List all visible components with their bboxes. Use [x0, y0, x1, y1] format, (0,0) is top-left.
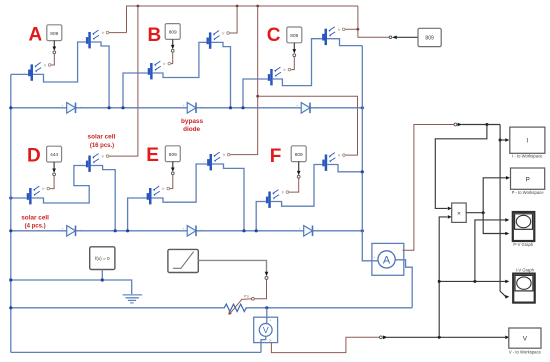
wire: Ir branch to cell F2 — [258, 96, 358, 155]
wire: C2 output to right rail — [327, 39, 362, 46]
svg-text:(4 pcs.): (4 pcs.) — [25, 224, 46, 230]
solar cell B1 — [144, 61, 171, 79]
svg-text:I-V Graph: I-V Graph — [516, 267, 535, 272]
signal arrow constant F to converter — [298, 162, 300, 173]
wire: V signal line with arrowhead — [383, 336, 388, 340]
wire: E1 to E2 series link — [152, 164, 208, 202]
voltmeter VM — [254, 317, 278, 342]
wire: F1 to F2 series link — [271, 165, 323, 207]
wire: E2 output to bus2 — [212, 164, 244, 231]
solar cell F1 — [262, 190, 289, 208]
solar cell F2 — [319, 153, 346, 171]
node: junction bus2 F1 in — [255, 229, 258, 232]
svg-text:P - to Workspace: P - to Workspace — [512, 190, 545, 195]
bypass diode D — [62, 226, 82, 237]
wire: D1 to D2 series link — [32, 166, 90, 204]
svg-text:f(x) = 0: f(x) = 0 — [95, 256, 110, 261]
wire: PS control to variable resistor — [254, 279, 266, 298]
wire: bus1 bypass row top — [11, 107, 363, 109]
wire: Ir lead to cell A1 — [51, 54, 54, 65]
wire: signal line from constant G with arrowhead — [392, 36, 397, 40]
bypass diode F — [299, 226, 319, 237]
wire: bottom return line — [11, 351, 261, 353]
wire: V branch to P-V graph input1 — [475, 220, 506, 282]
wire: P branch to workspace — [483, 178, 506, 213]
svg-text:I - to Workspace: I - to Workspace — [512, 154, 543, 159]
svg-text:V: V — [263, 325, 269, 335]
wire: F2 output to right rail — [327, 165, 362, 172]
product block x — [452, 203, 467, 222]
wire: I signal branch to product — [435, 125, 487, 209]
svg-text:×: × — [457, 210, 461, 217]
solar cell A1 — [24, 63, 51, 81]
to-workspace block I — [510, 127, 545, 153]
node: junction right rail F2 out — [361, 170, 364, 173]
bypass diode E — [182, 226, 202, 237]
node: junction V to IV graph — [438, 280, 441, 283]
signal arrow constant E to converter — [172, 162, 174, 169]
svg-text:+: + — [270, 319, 272, 323]
node: junction left rail load line — [9, 306, 12, 309]
wire: right rail to ammeter — [362, 46, 378, 261]
solar cell D1 — [23, 186, 50, 204]
svg-text:444: 444 — [50, 152, 58, 158]
solar cell D2 — [82, 154, 109, 172]
wire: B2 output to bus1 — [211, 42, 230, 107]
constant F1ir (809) — [291, 146, 306, 162]
wire: Ir branch down to cell E2 — [230, 6, 258, 155]
svg-text:809: 809 — [290, 33, 298, 39]
wire: voltmeter bottom lead to bottom line — [261, 336, 266, 352]
port: PS-S converter circle current — [454, 123, 457, 126]
signal arrow constant C to converter — [293, 43, 295, 51]
wire: A1 to A2 series link — [33, 42, 86, 82]
node: junction bus1 B2 out — [229, 106, 232, 109]
svg-text:diode: diode — [183, 126, 200, 133]
constant A1ir (809) — [47, 25, 62, 41]
solar cell A2 — [82, 30, 109, 48]
svg-text:809: 809 — [295, 152, 303, 158]
port: PS converter circle block F — [297, 175, 300, 178]
constant G (809) top right — [418, 28, 441, 46]
ground (electrical reference) — [123, 295, 143, 303]
solar cell B2 — [203, 31, 230, 49]
wire: P branch to P-V graph input2 — [483, 213, 505, 234]
wire: Ir lead to cell B1 — [171, 52, 173, 64]
svg-text:809: 809 — [169, 30, 177, 36]
wire: F1 input from bus2 — [256, 202, 266, 231]
wire: arrow into I-V graph input2 — [505, 295, 509, 299]
svg-text:solar cell: solar cell — [21, 215, 49, 222]
to-workspace block V — [509, 328, 541, 348]
wire: ammeter output return to load line — [396, 260, 413, 308]
svg-text:P: P — [525, 176, 529, 183]
bypass diode A — [62, 103, 82, 114]
port: variable resistor PS port — [252, 297, 255, 300]
wire: arrow into I workspace — [500, 139, 506, 141]
node: junction I to workspace tap — [499, 139, 502, 142]
ramp block — [168, 249, 198, 272]
wire: D1 input from left rail — [11, 197, 27, 199]
wire: load line left (rail to resistor) — [11, 307, 223, 309]
svg-text:F: F — [270, 146, 282, 167]
constant B1ir (809) — [165, 24, 180, 40]
node: junction bus2 E1 in — [126, 229, 129, 232]
svg-text:V - to Workspace: V - to Workspace — [509, 349, 542, 354]
solar cell C1 — [264, 67, 291, 85]
constant D1ir (444) — [47, 146, 62, 162]
port: PS converter circle at constant G — [389, 36, 392, 39]
wire: left rail — [10, 74, 12, 352]
solar cell E2 — [203, 152, 230, 170]
wire: ammeter PS output — [403, 125, 455, 251]
wire: B1 input from bus1 — [123, 73, 148, 108]
node: junction bus1 right rail — [361, 106, 364, 109]
wire: D2 output to bus2 — [91, 166, 115, 231]
port: PS converter circle block D — [53, 173, 56, 176]
svg-text:C: C — [267, 25, 281, 46]
wire: voltmeter PS output down — [271, 337, 379, 352]
svg-text:809: 809 — [50, 31, 58, 37]
node: junction solver-ground — [101, 278, 104, 281]
svg-text:E: E — [146, 145, 159, 166]
node: junction V to PV graph — [473, 280, 476, 283]
node: junction bus1 left — [9, 106, 12, 109]
node: junction bus1 B1 in — [121, 106, 124, 109]
node: junction P signal — [482, 211, 485, 214]
svg-text:P-V Graph: P-V Graph — [513, 242, 533, 247]
node: junction I signal — [485, 123, 488, 126]
scope P-V Graph — [513, 212, 535, 241]
signal arrow constant D to converter — [53, 162, 55, 170]
variable resistor R (zigzag) — [223, 304, 248, 311]
svg-text:809: 809 — [169, 152, 177, 158]
wire: solver stub to ground line — [101, 270, 103, 281]
wire: Ir lead to cell F1 — [289, 178, 299, 192]
wire: E1 input from bus2 — [128, 198, 147, 231]
node: Ir net junction right — [357, 28, 360, 31]
signal arrow constant B to converter — [172, 39, 174, 46]
solar cell E1 — [143, 186, 170, 204]
variable resistor arrow — [231, 299, 252, 313]
node: junction bus1 A2 out — [108, 106, 111, 109]
svg-text:A: A — [29, 25, 43, 46]
node: junction bus2 E2 out — [242, 229, 245, 232]
wire: ground line — [11, 280, 132, 294]
svg-text:I: I — [526, 138, 528, 145]
svg-text:+: + — [374, 256, 376, 260]
port: PS converter circle block A — [53, 51, 56, 54]
wire: V riser — [439, 217, 447, 337]
solar cell C2 — [318, 27, 345, 45]
constant C1ir (809) — [287, 27, 302, 43]
wire: C1 to C2 series link — [273, 39, 322, 86]
ammeter AM — [372, 243, 404, 275]
node: junction voltmeter tap — [265, 306, 268, 309]
solver configuration f(x)=0 — [90, 247, 115, 270]
node: Ir net junction mid — [256, 95, 259, 98]
svg-text:B: B — [148, 25, 162, 46]
svg-text:solar cell: solar cell — [88, 134, 116, 141]
to-workspace block P — [511, 168, 545, 189]
signal arrow constant A to converter — [53, 41, 55, 48]
wire: product output P — [466, 212, 483, 214]
svg-text:D: D — [27, 146, 41, 167]
wire: B1 to B2 series link — [153, 42, 207, 77]
port: PS-S converter circle voltage — [380, 336, 383, 339]
svg-text:809: 809 — [425, 36, 434, 42]
wire: load line right (resistor to ammeter return) — [248, 307, 413, 309]
wire: I signal vertical to I-V graph — [500, 125, 506, 297]
wire: Ir lead to cell D1 — [50, 176, 54, 189]
svg-text:V: V — [523, 336, 528, 343]
wire: irradiance net top horizontal — [127, 6, 358, 33]
wire: A2 output to bus1 — [91, 42, 109, 108]
port: PS converter circle block C — [293, 54, 296, 57]
wire: Ir net to converter of constant G — [358, 29, 389, 37]
wire: Ir lead to cell E1 — [170, 175, 173, 189]
node: Ir net junction top-3 — [256, 5, 259, 8]
port: PS converter circle at resistor control — [265, 276, 268, 279]
wire: V branch to I-V graph input1 — [439, 280, 505, 282]
wire: Ir lead to cell C1 — [291, 57, 295, 70]
constant E1ir (809) — [165, 146, 180, 162]
wire: C1 input from bus1 — [243, 79, 268, 108]
port: PS converter circle block B — [171, 49, 174, 52]
wire: Ir branch down to cell D2 — [109, 6, 138, 156]
wire: voltmeter top lead — [266, 308, 268, 324]
wire: I signal line with arrowhead — [458, 123, 463, 127]
svg-text:A: A — [383, 255, 391, 267]
wire: A1 input from left rail — [11, 73, 28, 75]
wire: Ir branch down to cell C2 — [345, 6, 358, 29]
node: junction bus2 right rail — [361, 229, 364, 232]
node: Ir net junction top-1 — [137, 5, 140, 8]
wire: Ir branch down to cell B2 — [230, 6, 238, 33]
node: Ir net junction top-2 — [236, 5, 239, 8]
svg-text:(16 pcs.): (16 pcs.) — [90, 143, 114, 149]
node: junction V signal main — [438, 336, 441, 339]
svg-text:bypass: bypass — [181, 118, 203, 125]
node: junction left rail ground line — [9, 278, 12, 281]
node: junction bus1 C1 in — [241, 106, 244, 109]
node: junction left rail D1 — [9, 196, 12, 199]
wire: arrow into V workspace — [505, 336, 509, 340]
node: junction bus2 left — [9, 229, 12, 232]
svg-text:PS: PS — [244, 295, 250, 299]
wire: Ir branch to cell A2 — [109, 32, 127, 34]
node: junction bus2 D2 out — [114, 229, 117, 232]
bypass diode B — [182, 103, 202, 114]
bypass diode C — [296, 103, 316, 114]
wire: ramp output signal — [198, 260, 266, 272]
wire: bus2 bypass row bottom — [11, 230, 363, 232]
port: PS converter circle block E — [171, 172, 174, 175]
